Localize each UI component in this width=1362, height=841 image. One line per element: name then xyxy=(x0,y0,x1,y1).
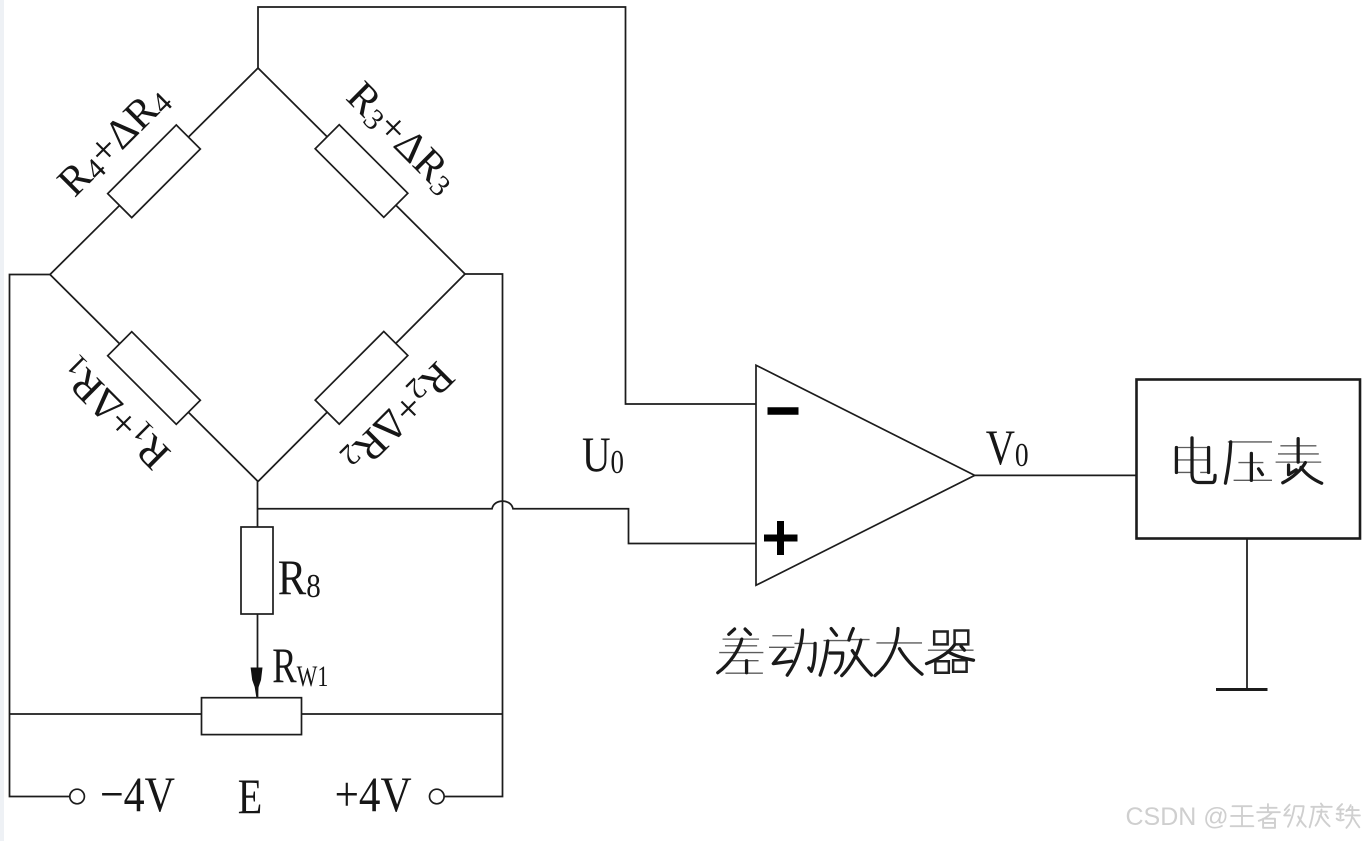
wire bridge diagonal bottom-right (B to R) xyxy=(258,274,465,482)
label R2+dR2 xyxy=(333,352,463,482)
resistor R4+dR4 body xyxy=(108,125,201,218)
op-amp plus input symbol xyxy=(764,535,798,542)
label R4+dR4 xyxy=(49,76,179,206)
wire potentiometer to right rail xyxy=(302,713,503,715)
wire bottom node B stub down to R8 xyxy=(257,482,259,528)
resistor R1+dR1 body xyxy=(108,332,201,425)
potentiometer RW1 body xyxy=(202,698,302,735)
label R1+dR1 xyxy=(50,348,180,478)
op-amp minus input symbol xyxy=(768,407,799,415)
watermark wang-zhe-ji-fei-tie xyxy=(1231,804,1360,828)
svg-text:E: E xyxy=(238,768,263,824)
terminal +4V circle xyxy=(430,789,445,804)
wire bridge diagonal top-left (L to T) xyxy=(50,68,258,275)
voltmeter box xyxy=(1137,380,1361,539)
wire op-amp output to voltmeter xyxy=(975,474,1137,476)
wire bridge diagonal bottom-left (L to B) xyxy=(50,275,258,482)
wire left node L to left rail down to bottom xyxy=(10,275,70,797)
resistor R8 body xyxy=(241,527,273,614)
resistor R2+dR2 body xyxy=(315,331,408,424)
wire R8 to potentiometer wiper xyxy=(257,614,259,701)
terminal -4V circle xyxy=(70,789,85,804)
wire top node T up and across to op-amp minus input xyxy=(258,7,756,404)
resistor R3+dR3 body xyxy=(315,125,408,218)
label R3+dR3 xyxy=(337,73,467,203)
svg-text:+4V: +4V xyxy=(335,766,412,822)
wire right node R to right rail down to bottom xyxy=(445,274,503,797)
label CJK cha-dong-fang-da-qi (differential amplifier text) xyxy=(718,629,974,676)
ground symbol xyxy=(1216,688,1268,691)
wiper arrow head xyxy=(251,668,263,702)
wire voltmeter to ground xyxy=(1246,539,1248,690)
wire left rail to potentiometer xyxy=(10,713,202,715)
op-amp U1 triangle xyxy=(756,365,975,585)
wire bridge diagonal top-right (T to R) xyxy=(258,68,465,274)
svg-text:−4V: −4V xyxy=(100,766,175,822)
svg-text:CSDN @: CSDN @ xyxy=(1126,803,1229,831)
wire U0 from bridge bottom node to op-amp plus input with hop over right rail xyxy=(258,501,757,543)
label CJK dian-ya-biao (voltmeter text) xyxy=(1176,438,1322,483)
